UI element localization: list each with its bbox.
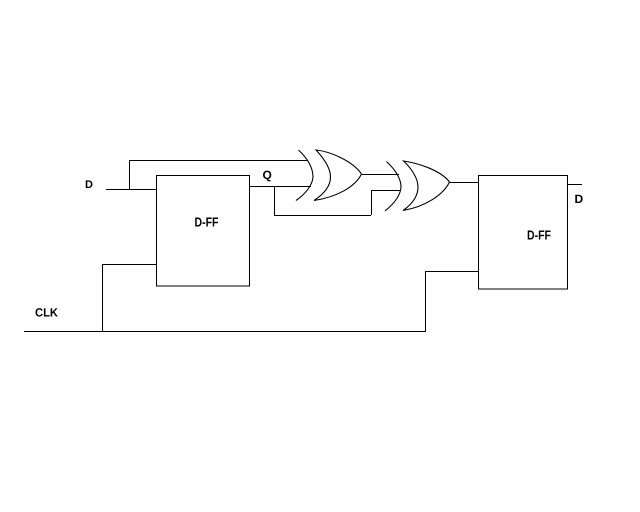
wire: clock riser to U4 bbox=[425, 271, 427, 331]
wire: clock stub into U4 bbox=[425, 271, 478, 273]
wire: branch down from Q net bbox=[274, 187, 276, 216]
XOR gate U2 body bbox=[314, 150, 362, 201]
wire: U4 output stub bbox=[568, 184, 583, 186]
wire: branch up to XOR U3 lower input level bbox=[371, 190, 373, 215]
wire: feedback horizontal to XOR U2 top input bbox=[129, 160, 307, 162]
XOR gate U3 body bbox=[403, 161, 450, 211]
wire: CLK main line bbox=[24, 331, 426, 333]
XOR gate U3 input arc bbox=[385, 162, 401, 212]
wire: XOR U3 output to U4 D input bbox=[450, 182, 478, 184]
wire: feedback vertical from D net up bbox=[129, 160, 131, 190]
svg-text:D: D bbox=[575, 192, 584, 206]
wire: clock riser to U1 bbox=[102, 264, 104, 331]
D flip-flop U1 bbox=[157, 176, 250, 287]
wire: branch into XOR U3 lower input bbox=[371, 190, 400, 192]
wire: Q output of U1 to XOR U2 lower input bbox=[250, 186, 312, 188]
svg-text:D-FF: D-FF bbox=[195, 215, 219, 230]
svg-text:D-FF: D-FF bbox=[527, 228, 551, 243]
XOR gate U2 input arc bbox=[296, 150, 313, 201]
svg-text:CLK: CLK bbox=[35, 306, 58, 320]
svg-text:Q: Q bbox=[263, 168, 272, 182]
wire: XOR U2 output to XOR U3 top input bbox=[362, 174, 399, 176]
wire: D input to U1 bbox=[106, 189, 156, 191]
D flip-flop U4 bbox=[479, 176, 568, 290]
svg-text:D: D bbox=[85, 179, 93, 191]
wire: clock stub into U1 bbox=[102, 264, 156, 266]
wire: branch bottom horizontal bbox=[274, 215, 371, 217]
